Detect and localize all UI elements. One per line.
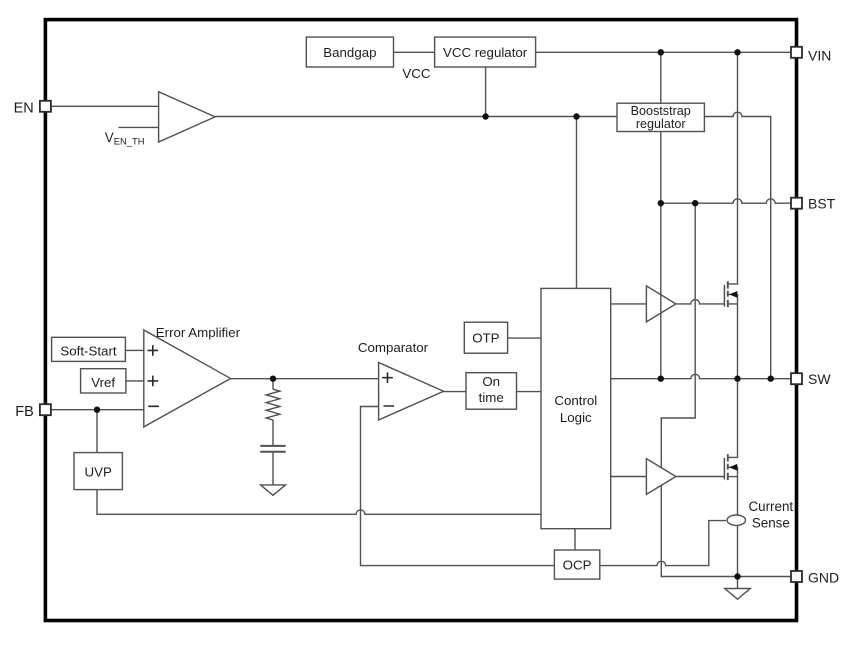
svg-text:Logic: Logic (560, 410, 592, 425)
svg-text:Control: Control (554, 393, 597, 408)
svg-text:OTP: OTP (472, 331, 499, 346)
svg-text:Booststrap: Booststrap (631, 104, 691, 118)
svg-text:GND: GND (808, 569, 839, 585)
svg-text:OCP: OCP (563, 558, 592, 573)
svg-text:UVP: UVP (85, 464, 112, 479)
svg-text:Error Amplifier: Error Amplifier (156, 325, 241, 340)
svg-text:time: time (479, 390, 504, 405)
svg-text:BST: BST (808, 196, 836, 212)
svg-text:FB: FB (15, 404, 34, 420)
svg-text:Bandgap: Bandgap (323, 45, 376, 60)
svg-text:Comparator: Comparator (358, 340, 429, 355)
svg-text:Vref: Vref (91, 375, 115, 390)
svg-text:Soft-Start: Soft-Start (60, 343, 116, 358)
svg-text:regulator: regulator (636, 117, 686, 131)
svg-text:VIN: VIN (808, 47, 831, 63)
svg-text:Current: Current (748, 499, 793, 514)
svg-text:VCC: VCC (402, 66, 430, 81)
svg-text:VCC regulator: VCC regulator (443, 45, 528, 60)
svg-text:EN: EN (14, 101, 34, 117)
svg-text:On: On (482, 374, 500, 389)
svg-text:Sense: Sense (752, 516, 790, 531)
svg-text:SW: SW (808, 371, 831, 387)
